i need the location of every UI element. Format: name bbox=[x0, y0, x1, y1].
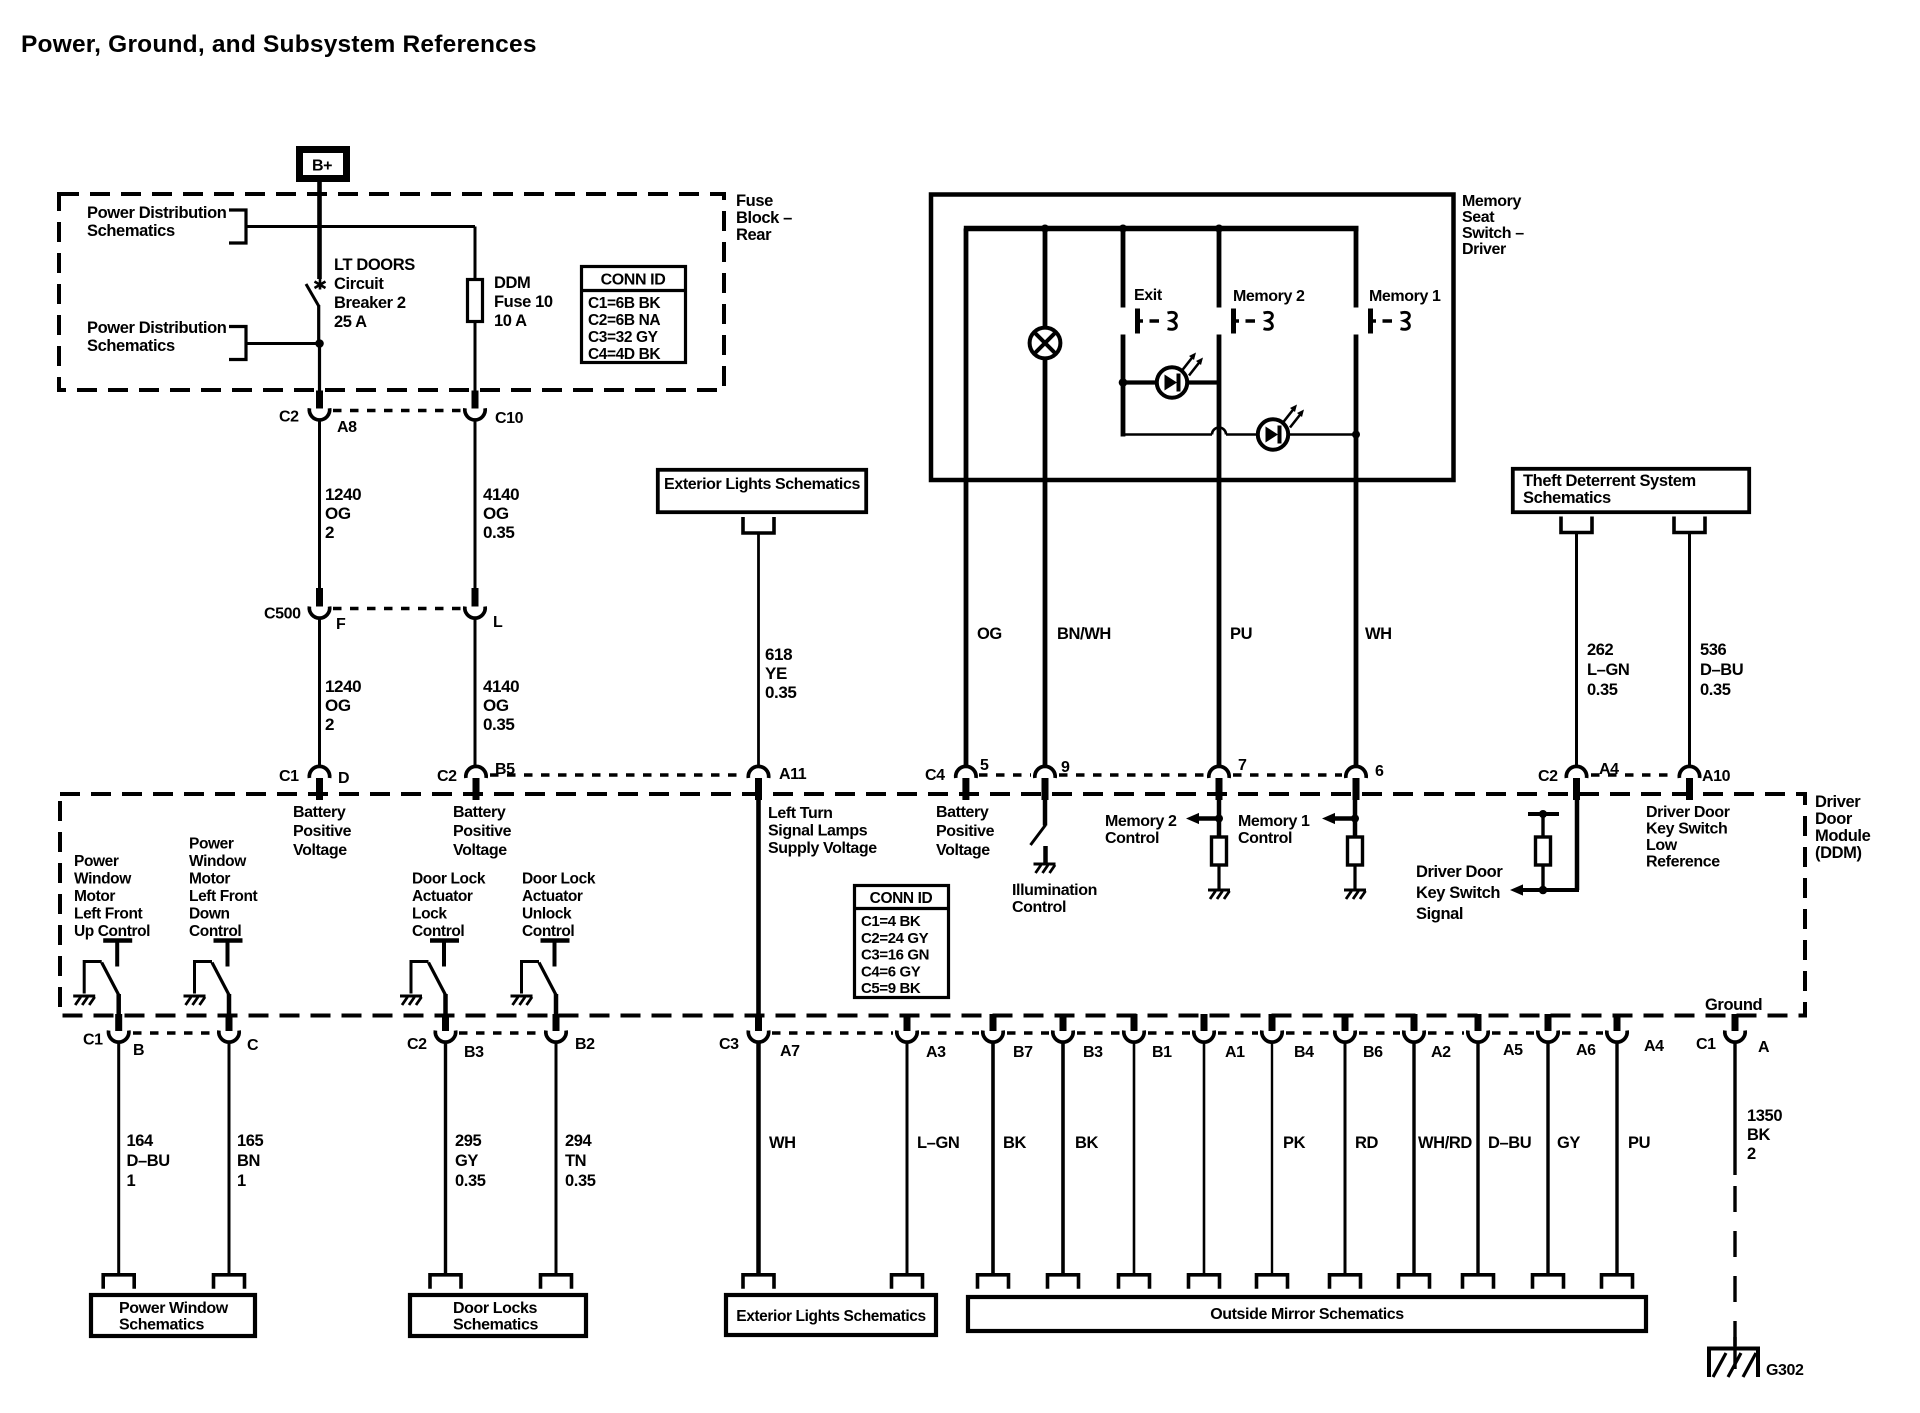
svg-text:PK: PK bbox=[1283, 1134, 1306, 1152]
label wire 294 TN 0.35 bbox=[565, 1132, 596, 1190]
wire lamp branch pin 9 lower bbox=[1043, 358, 1048, 766]
label C1 bbox=[279, 768, 299, 785]
bracket schematic reference bbox=[1399, 1275, 1430, 1289]
wire memory1 branch lower bbox=[1354, 335, 1359, 767]
wire fuse to connector C10 bbox=[474, 322, 477, 392]
wire dotted connector link bbox=[1059, 773, 1205, 776]
svg-text:BK: BK bbox=[1075, 1134, 1099, 1152]
svg-text:Memory: Memory bbox=[1462, 193, 1521, 210]
label pin 7 bbox=[1238, 757, 1247, 774]
svg-text:Switch –: Switch – bbox=[1462, 225, 1524, 242]
label circuit breaker bbox=[334, 256, 415, 331]
bracket schematic reference bbox=[743, 1275, 774, 1289]
svg-text:10 A: 10 A bbox=[494, 312, 527, 330]
connector DDM bottom pin B4 bbox=[1262, 1014, 1282, 1042]
svg-text:Down: Down bbox=[189, 906, 230, 923]
svg-text:Schematics: Schematics bbox=[87, 222, 175, 240]
bracket power distribution 1 bbox=[229, 210, 246, 243]
label wire BK bbox=[1003, 1134, 1027, 1152]
connector DDM bottom pin B6 bbox=[1335, 1014, 1355, 1042]
svg-text:Memory 2: Memory 2 bbox=[1233, 288, 1305, 305]
svg-text:Power: Power bbox=[189, 836, 234, 853]
svg-text:B3: B3 bbox=[464, 1044, 484, 1061]
wire battery branch pin 5 bbox=[964, 229, 969, 767]
wire lamp branch pin 9 upper bbox=[1043, 229, 1048, 329]
wire 4140 OG 0.35 lower bbox=[474, 618, 477, 767]
svg-text:D–BU: D–BU bbox=[127, 1152, 170, 1170]
svg-text:Power, Ground, and Subsystem R: Power, Ground, and Subsystem References bbox=[21, 31, 537, 58]
wire dotted connector C500 bbox=[333, 607, 461, 610]
svg-text:C2=24 GY: C2=24 GY bbox=[861, 930, 929, 947]
svg-text:A4: A4 bbox=[1644, 1038, 1664, 1055]
svg-text:A3: A3 bbox=[926, 1044, 946, 1061]
wire dotted connector link bbox=[490, 773, 744, 776]
bracket schematic reference bbox=[1048, 1275, 1079, 1289]
svg-text:BK: BK bbox=[1003, 1134, 1027, 1152]
LED indicator 1 bbox=[1157, 353, 1203, 398]
wire A11 through DDM bbox=[756, 800, 761, 1018]
svg-text:A6: A6 bbox=[1576, 1042, 1596, 1059]
connector DDM top pin A10 bbox=[1679, 766, 1699, 800]
svg-text:Window: Window bbox=[189, 853, 247, 870]
conn id table DDM bbox=[855, 886, 949, 998]
label memory 1 control bbox=[1238, 813, 1310, 847]
label power window motor left front up control bbox=[74, 853, 150, 940]
svg-text:A5: A5 bbox=[1503, 1042, 1523, 1059]
memory 1 control output bbox=[1322, 800, 1366, 899]
svg-text:Power Window: Power Window bbox=[119, 1300, 229, 1317]
wire dotted connector link bbox=[133, 1031, 215, 1034]
bracket schematic reference bbox=[1257, 1275, 1288, 1289]
connector DDM top pin 7 bbox=[1209, 766, 1229, 800]
ground G302 bbox=[1707, 1337, 1760, 1377]
bracket theft right bbox=[1674, 517, 1705, 533]
bracket schematic reference bbox=[978, 1275, 1009, 1289]
svg-text:Lock: Lock bbox=[412, 906, 447, 923]
label left turn signal lamps supply voltage bbox=[768, 805, 877, 857]
svg-text:LT DOORS: LT DOORS bbox=[334, 256, 415, 274]
wire dotted connector link bbox=[979, 773, 1031, 776]
svg-text:WH/RD: WH/RD bbox=[1418, 1134, 1472, 1152]
wire dotted connector link bbox=[772, 1031, 893, 1034]
svg-text:Power: Power bbox=[74, 853, 119, 870]
connector DDM top pin 6 bbox=[1346, 766, 1366, 800]
label wire OG bbox=[977, 625, 1002, 643]
connector DDM bottom pin A1 bbox=[1194, 1014, 1214, 1042]
svg-text:A2: A2 bbox=[1431, 1044, 1451, 1061]
svg-text:DDM: DDM bbox=[494, 274, 530, 292]
svg-text:1: 1 bbox=[127, 1172, 136, 1190]
label C10 bbox=[495, 410, 524, 427]
svg-text:Voltage: Voltage bbox=[293, 842, 347, 859]
switch power window down bbox=[184, 941, 243, 1018]
label pin B7 bbox=[1013, 1044, 1033, 1061]
svg-text:B1: B1 bbox=[1152, 1044, 1172, 1061]
svg-text:Driver Door: Driver Door bbox=[1416, 863, 1503, 881]
wire dotted connector link bbox=[1233, 773, 1342, 776]
label memory 2 control bbox=[1105, 813, 1177, 847]
label C2 bbox=[407, 1036, 427, 1053]
svg-text:Control: Control bbox=[1012, 899, 1066, 916]
svg-text:B: B bbox=[133, 1042, 144, 1059]
svg-text:F: F bbox=[336, 616, 346, 633]
svg-text:C1=6B BK: C1=6B BK bbox=[588, 295, 661, 312]
driver door key switch network bbox=[1510, 800, 1579, 896]
wire 1240 OG 2 upper bbox=[318, 420, 321, 589]
svg-text:Memory 2: Memory 2 bbox=[1105, 813, 1177, 830]
label pin B6 bbox=[1363, 1044, 1383, 1061]
label power window motor left front down control bbox=[189, 836, 258, 941]
svg-text:C1: C1 bbox=[1696, 1036, 1716, 1053]
fuse block - rear dashed box bbox=[59, 194, 724, 390]
label memory 2 bbox=[1233, 288, 1305, 305]
svg-text:Low: Low bbox=[1646, 837, 1678, 854]
label wire 164 D-BU 1 bbox=[127, 1132, 170, 1190]
label pin B3 bbox=[464, 1044, 484, 1061]
svg-text:Block –: Block – bbox=[736, 209, 792, 227]
svg-text:B6: B6 bbox=[1363, 1044, 1383, 1061]
svg-text:PU: PU bbox=[1628, 1134, 1650, 1152]
wire exit branch upper bbox=[1121, 229, 1126, 308]
label pin A4 bbox=[1599, 761, 1619, 778]
wire dotted connector link bbox=[1007, 1031, 1049, 1034]
connector DDM bottom pin B1 bbox=[1124, 1014, 1144, 1042]
label wire WH/RD bbox=[1418, 1134, 1472, 1152]
svg-text:0.35: 0.35 bbox=[1700, 681, 1731, 699]
svg-text:A7: A7 bbox=[780, 1043, 800, 1060]
svg-text:262: 262 bbox=[1587, 641, 1614, 659]
memory 2 control output bbox=[1186, 800, 1230, 899]
wire dotted connector link bbox=[1218, 1031, 1258, 1034]
svg-text:A11: A11 bbox=[779, 766, 807, 783]
node exit LED junction bbox=[1119, 378, 1128, 387]
box exterior lights schematics bottom bbox=[726, 1295, 936, 1335]
wire memory2 branch lower bbox=[1217, 335, 1222, 767]
label C3 bbox=[719, 1036, 739, 1053]
svg-text:Door Locks: Door Locks bbox=[453, 1300, 538, 1317]
svg-text:A10: A10 bbox=[1702, 768, 1731, 785]
svg-text:Left Front: Left Front bbox=[189, 888, 258, 905]
label wire WH bbox=[769, 1134, 796, 1152]
label battery positive voltage 3 bbox=[936, 804, 995, 859]
wire to schematic reference bbox=[1546, 1042, 1549, 1274]
svg-text:C4: C4 bbox=[925, 767, 945, 784]
wire 1350 BK 2 dashed bbox=[1733, 1186, 1736, 1346]
svg-text:(DDM): (DDM) bbox=[1815, 844, 1862, 862]
connector DDM bottom pin B2 bbox=[546, 1014, 566, 1042]
svg-text:Schematics: Schematics bbox=[119, 1317, 204, 1334]
bracket schematic reference bbox=[1189, 1275, 1220, 1289]
label C2 bbox=[1538, 768, 1558, 785]
label pin 5 bbox=[980, 757, 989, 774]
svg-text:Schematics: Schematics bbox=[453, 1317, 538, 1334]
svg-text:Memory 1: Memory 1 bbox=[1369, 288, 1441, 305]
connector DDM top pin B5 bbox=[466, 766, 486, 800]
svg-text:Outside Mirror Schematics: Outside Mirror Schematics bbox=[1210, 1306, 1404, 1323]
svg-text:295: 295 bbox=[455, 1132, 482, 1150]
bracket exterior lights top bbox=[743, 517, 774, 533]
wire memory1 branch upper bbox=[1354, 229, 1359, 308]
connector DDM bottom pin A5 bbox=[1468, 1014, 1488, 1042]
svg-text:0.35: 0.35 bbox=[1587, 681, 1618, 699]
wire to schematic reference bbox=[1271, 1042, 1273, 1274]
label pin B1 bbox=[1152, 1044, 1172, 1061]
wire seat switch bus bbox=[964, 226, 1359, 231]
label A8 bbox=[337, 419, 357, 436]
label pin A6 bbox=[1576, 1042, 1596, 1059]
svg-text:Left Turn: Left Turn bbox=[768, 805, 833, 822]
connector C10 bbox=[465, 391, 485, 420]
label door lock actuator lock control bbox=[412, 871, 486, 941]
LED indicator 2 bbox=[1258, 405, 1304, 450]
svg-text:Driver: Driver bbox=[1815, 793, 1861, 811]
svg-text:A: A bbox=[1758, 1039, 1770, 1056]
wire to schematic reference bbox=[117, 1042, 120, 1274]
box exterior lights schematics top bbox=[658, 470, 866, 512]
svg-text:Power Distribution: Power Distribution bbox=[87, 319, 227, 337]
svg-text:D: D bbox=[338, 770, 349, 787]
wire to schematic reference bbox=[444, 1042, 447, 1274]
label wire 262 L-GN 0.35 bbox=[1587, 641, 1629, 699]
svg-text:Module: Module bbox=[1815, 827, 1871, 845]
svg-text:Motor: Motor bbox=[74, 888, 115, 905]
svg-text:Memory 1: Memory 1 bbox=[1238, 813, 1310, 830]
label door lock actuator unlock control bbox=[522, 871, 596, 941]
svg-text:GY: GY bbox=[1557, 1134, 1580, 1152]
svg-text:YE: YE bbox=[765, 664, 787, 683]
svg-text:Driver: Driver bbox=[1462, 241, 1506, 258]
svg-text:A8: A8 bbox=[337, 419, 357, 436]
label fuse block rear bbox=[736, 192, 792, 244]
connector C500 pin L bbox=[465, 588, 485, 618]
label pin C bbox=[247, 1037, 259, 1054]
wire to schematic reference bbox=[1476, 1042, 1479, 1274]
svg-text:D–BU: D–BU bbox=[1488, 1134, 1531, 1152]
svg-text:0.35: 0.35 bbox=[455, 1172, 486, 1190]
svg-text:Fuse 10: Fuse 10 bbox=[494, 293, 553, 311]
label pin 6 bbox=[1375, 763, 1384, 780]
label pin A2 bbox=[1431, 1044, 1451, 1061]
connector DDM bottom pin B bbox=[109, 1014, 129, 1042]
wire to schematic reference bbox=[1412, 1042, 1415, 1274]
label G302 bbox=[1766, 1362, 1804, 1379]
svg-text:Illumination: Illumination bbox=[1012, 882, 1097, 899]
svg-text:C1: C1 bbox=[83, 1032, 103, 1049]
bracket schematic reference bbox=[1463, 1275, 1494, 1289]
connector C500 pin F bbox=[309, 588, 329, 618]
svg-text:C: C bbox=[247, 1037, 259, 1054]
wire dotted connector link bbox=[1077, 1031, 1120, 1034]
label pin B3 bbox=[1083, 1044, 1103, 1061]
node LED2 memory1 junction bbox=[1352, 431, 1360, 439]
svg-text:294: 294 bbox=[565, 1132, 593, 1150]
label pin A11 bbox=[779, 766, 807, 783]
label wire 295 GY 0.35 bbox=[455, 1132, 486, 1190]
bracket power distribution 2 bbox=[229, 327, 246, 360]
svg-text:C2=6B NA: C2=6B NA bbox=[588, 312, 660, 329]
wire dotted connector link bbox=[1591, 773, 1676, 776]
svg-text:OG: OG bbox=[325, 504, 351, 523]
label C1 bbox=[1696, 1036, 1716, 1053]
label wire PU bbox=[1230, 625, 1252, 643]
svg-text:7: 7 bbox=[1238, 757, 1247, 774]
wire dotted connector link bbox=[1148, 1031, 1190, 1034]
bracket schematic reference bbox=[1330, 1275, 1361, 1289]
label wire GY bbox=[1557, 1134, 1580, 1152]
svg-text:Left Front: Left Front bbox=[74, 906, 143, 923]
bracket schematic reference bbox=[541, 1275, 572, 1289]
svg-text:4140: 4140 bbox=[483, 677, 519, 696]
svg-text:Seat: Seat bbox=[1462, 209, 1495, 226]
connector DDM bottom pin B7 bbox=[983, 1014, 1003, 1042]
svg-text:Schematics: Schematics bbox=[87, 337, 175, 355]
label wire 4140 OG 0.35 upper bbox=[483, 485, 519, 542]
box outside mirror schematics bbox=[968, 1297, 1646, 1331]
svg-text:BN: BN bbox=[237, 1152, 260, 1170]
wire 618 YE 0.35 bbox=[757, 533, 760, 766]
svg-text:Window: Window bbox=[74, 871, 132, 888]
svg-text:C3=16 GN: C3=16 GN bbox=[861, 947, 929, 964]
connector DDM bottom pin B3 bbox=[1053, 1014, 1073, 1042]
label pin D bbox=[338, 770, 349, 787]
svg-text:Motor: Motor bbox=[189, 871, 230, 888]
wire exit branch lower bbox=[1121, 335, 1126, 437]
connector DDM bottom pin A2 bbox=[1404, 1014, 1424, 1042]
svg-text:Voltage: Voltage bbox=[453, 842, 507, 859]
label C2 bbox=[437, 768, 457, 785]
svg-text:C4=6 GY: C4=6 GY bbox=[861, 963, 921, 980]
connector DDM top pin 5 bbox=[956, 766, 976, 800]
svg-text:Actuator: Actuator bbox=[412, 888, 473, 905]
svg-text:C3: C3 bbox=[719, 1036, 739, 1053]
svg-text:Control: Control bbox=[1105, 830, 1159, 847]
wire breaker to connector C2 bbox=[318, 344, 321, 392]
connector C2 pin A8 bbox=[309, 391, 329, 420]
label C1 bbox=[83, 1032, 103, 1049]
label pin B5 bbox=[495, 761, 515, 778]
svg-text:CONN ID: CONN ID bbox=[601, 272, 666, 289]
label pin B4 bbox=[1294, 1044, 1314, 1061]
svg-text:GY: GY bbox=[455, 1152, 478, 1170]
svg-text:5: 5 bbox=[980, 757, 989, 774]
svg-text:0.35: 0.35 bbox=[765, 683, 797, 702]
label C4 bbox=[925, 767, 945, 784]
label pin A7 bbox=[780, 1043, 800, 1060]
box theft deterrent system schematics bbox=[1513, 469, 1749, 512]
svg-text:Door Lock: Door Lock bbox=[522, 871, 596, 888]
switch memory 1 bbox=[1371, 309, 1410, 334]
wire dotted connector link bbox=[1359, 1031, 1400, 1034]
svg-text:OG: OG bbox=[483, 504, 509, 523]
svg-text:L: L bbox=[493, 614, 503, 631]
label F bbox=[336, 616, 346, 633]
wire to schematic reference bbox=[1615, 1042, 1618, 1274]
svg-text:2: 2 bbox=[1747, 1145, 1756, 1163]
svg-text:C1: C1 bbox=[279, 768, 299, 785]
svg-text:B+: B+ bbox=[312, 158, 332, 175]
svg-text:C2: C2 bbox=[279, 409, 299, 426]
label illumination control bbox=[1012, 882, 1097, 916]
lamp illumination bbox=[1030, 328, 1061, 359]
switch door lock bbox=[400, 941, 459, 1018]
connector DDM bottom pin A7 bbox=[748, 1014, 768, 1042]
wire memory2 branch upper bbox=[1217, 229, 1222, 308]
svg-text:2: 2 bbox=[325, 715, 334, 734]
label pin A10 bbox=[1702, 768, 1731, 785]
wire dotted connector link bbox=[459, 1031, 542, 1034]
label battery positive voltage 1 bbox=[293, 804, 352, 859]
battery terminal B+ bbox=[300, 150, 347, 179]
bracket schematic reference bbox=[1533, 1275, 1564, 1289]
svg-text:Positive: Positive bbox=[936, 823, 995, 840]
svg-text:Supply Voltage: Supply Voltage bbox=[768, 840, 877, 857]
node bus junction 1 bbox=[1041, 225, 1049, 233]
svg-text:Reference: Reference bbox=[1646, 854, 1720, 871]
node breaker output junction bbox=[315, 339, 324, 348]
connector DDM top pin D bbox=[309, 766, 329, 800]
wire dotted connector link bbox=[921, 1031, 979, 1034]
label pin A1 bbox=[1225, 1044, 1245, 1061]
svg-text:BK: BK bbox=[1747, 1126, 1771, 1144]
box door locks schematics bbox=[410, 1295, 586, 1336]
label battery positive voltage 2 bbox=[453, 804, 512, 859]
svg-text:C3=32 GY: C3=32 GY bbox=[588, 329, 659, 346]
svg-text:C2: C2 bbox=[407, 1036, 427, 1053]
svg-text:C10: C10 bbox=[495, 410, 524, 427]
wire B+ feed bbox=[317, 182, 322, 279]
label power distribution schematics 1 bbox=[87, 204, 227, 240]
svg-text:PU: PU bbox=[1230, 625, 1252, 643]
svg-text:WH: WH bbox=[1365, 625, 1392, 643]
wire to schematic reference bbox=[555, 1042, 558, 1274]
svg-text:Control: Control bbox=[189, 923, 241, 940]
svg-text:Voltage: Voltage bbox=[936, 842, 990, 859]
switch memory 2 bbox=[1234, 309, 1273, 334]
svg-text:B3: B3 bbox=[1083, 1044, 1103, 1061]
label wire 1240 OG 2 lower bbox=[325, 677, 361, 734]
svg-text:RD: RD bbox=[1355, 1134, 1379, 1152]
wire LED2 link with hop bbox=[1123, 428, 1356, 435]
svg-text:165: 165 bbox=[237, 1132, 264, 1150]
svg-text:Positive: Positive bbox=[453, 823, 512, 840]
label wire 4140 OG 0.35 lower bbox=[483, 677, 519, 734]
wire to breaker output bbox=[246, 342, 320, 345]
label wire PU bbox=[1628, 1134, 1650, 1152]
svg-text:Schematics: Schematics bbox=[1523, 489, 1611, 507]
svg-text:CONN ID: CONN ID bbox=[870, 890, 933, 907]
label wire 1240 OG 2 upper bbox=[325, 485, 361, 542]
svg-text:C1=4 BK: C1=4 BK bbox=[861, 913, 921, 930]
svg-text:G302: G302 bbox=[1766, 1362, 1804, 1379]
svg-text:Positive: Positive bbox=[293, 823, 352, 840]
connector DDM bottom pin A bbox=[1725, 1014, 1745, 1042]
svg-text:Actuator: Actuator bbox=[522, 888, 583, 905]
svg-text:Exterior Lights Schematics: Exterior Lights Schematics bbox=[736, 1308, 925, 1325]
svg-text:164: 164 bbox=[127, 1132, 155, 1150]
bracket schematic reference bbox=[103, 1275, 134, 1289]
label pin A bbox=[1758, 1039, 1770, 1056]
svg-text:C5=9 BK: C5=9 BK bbox=[861, 980, 921, 997]
svg-text:25 A: 25 A bbox=[334, 313, 367, 331]
label ground bbox=[1705, 996, 1762, 1014]
svg-text:1350: 1350 bbox=[1747, 1107, 1782, 1125]
svg-text:1: 1 bbox=[237, 1172, 246, 1190]
svg-text:1240: 1240 bbox=[325, 485, 361, 504]
label driver door key switch low reference bbox=[1646, 804, 1730, 871]
wire LED1 link bbox=[1123, 380, 1219, 384]
connector DDM bottom pin A4 bbox=[1607, 1014, 1627, 1042]
connector DDM bottom pin C bbox=[219, 1014, 239, 1042]
